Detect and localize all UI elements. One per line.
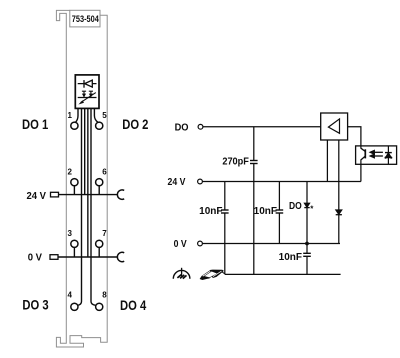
svg-text:4: 4 xyxy=(68,290,73,299)
freewheeling diode D2 xyxy=(336,210,342,244)
node 0V terminal xyxy=(198,241,203,246)
optocoupler LED xyxy=(385,146,393,164)
svg-text:270pF: 270pF xyxy=(222,156,249,167)
status LED box xyxy=(75,75,99,109)
optocoupler light arrows xyxy=(370,151,383,158)
capacitor 10nF (24V to earth) xyxy=(221,182,229,275)
wire W2 to 24V rail xyxy=(84,108,86,194)
wire 0V rail xyxy=(203,243,341,245)
capacitor 10nF (24V to 0V) xyxy=(276,182,284,244)
wire 24V rail xyxy=(203,181,361,183)
terminal 6 xyxy=(96,179,103,195)
terminal 5 xyxy=(96,122,103,129)
capacitor 10nF (0V to earth) xyxy=(303,244,311,275)
junction 0V/zener xyxy=(305,242,309,246)
svg-text:DO: DO xyxy=(175,122,189,133)
terminal 4 xyxy=(71,303,78,310)
optocoupler phototransistor xyxy=(361,146,365,164)
svg-text:753-504: 753-504 xyxy=(72,15,99,25)
svg-text:DO 3: DO 3 xyxy=(22,298,48,313)
svg-text:5: 5 xyxy=(102,111,107,120)
diode D1 inside LED box xyxy=(78,80,97,88)
0V feed terminal marker (square) xyxy=(50,255,58,260)
svg-text:24 V: 24 V xyxy=(168,176,187,187)
functional earth symbol xyxy=(173,268,190,279)
24V feed terminal marker (square) xyxy=(51,192,59,197)
DIN rail symbol xyxy=(200,270,226,280)
svg-text:24 V: 24 V xyxy=(26,191,46,202)
dual LED V1 inside LED box xyxy=(78,91,97,104)
wire DO rail xyxy=(203,126,321,128)
terminal 8 xyxy=(96,303,103,310)
terminal 1 xyxy=(71,122,78,129)
svg-text:3: 3 xyxy=(68,229,73,238)
wire W3 to 0V rail xyxy=(87,108,89,257)
svg-text:6: 6 xyxy=(102,168,107,177)
24V power jumper contact (arc) xyxy=(117,190,124,199)
wire amp right leg down xyxy=(338,140,340,210)
svg-text:1: 1 xyxy=(68,111,73,120)
svg-text:DO: DO xyxy=(289,200,302,211)
svg-text:10nF: 10nF xyxy=(199,206,222,217)
wire amp left leg to 24V xyxy=(326,140,328,182)
svg-text:DO 2: DO 2 xyxy=(122,117,148,132)
zener diode DO* (24V to 0V) xyxy=(304,182,309,244)
svg-text:10nF: 10nF xyxy=(279,252,302,263)
0V distribution line xyxy=(58,256,118,258)
module outline (753-504 housing, gray) xyxy=(56,10,107,347)
node DO terminal xyxy=(198,124,203,129)
wire to terminal 4 xyxy=(78,108,82,305)
0V power jumper contact (arc) xyxy=(117,252,124,261)
svg-text:0 V: 0 V xyxy=(28,252,43,263)
svg-text:2: 2 xyxy=(68,168,73,177)
label box 753-504 xyxy=(70,10,100,27)
output driver U2 (amplifier box) xyxy=(321,113,348,140)
node 24V terminal xyxy=(198,179,203,184)
capacitor 270pF (DO to earth) xyxy=(250,127,258,275)
wire optocoupler emitter to 24V rail xyxy=(360,164,362,181)
24V distribution line xyxy=(59,194,118,196)
wire amp output to optocoupler xyxy=(348,127,361,146)
terminal 3 xyxy=(71,240,78,257)
terminal 7 xyxy=(96,240,103,257)
wire to terminal 5 xyxy=(94,108,98,122)
svg-text:0 V: 0 V xyxy=(174,238,188,249)
terminal 2 xyxy=(71,179,78,195)
internal wires from LED box to terminals xyxy=(76,108,98,305)
svg-text:DO 1: DO 1 xyxy=(22,117,48,132)
wire to terminal 8 xyxy=(91,108,96,305)
svg-text:DO 4: DO 4 xyxy=(120,298,146,313)
svg-text:7: 7 xyxy=(102,229,107,238)
wire earth rail xyxy=(225,273,341,275)
wire to terminal 1 xyxy=(76,108,79,122)
svg-text:8: 8 xyxy=(102,290,107,299)
pin numbers xyxy=(68,111,108,299)
svg-text:10nF: 10nF xyxy=(254,206,277,217)
optocoupler U3 box xyxy=(356,146,397,164)
